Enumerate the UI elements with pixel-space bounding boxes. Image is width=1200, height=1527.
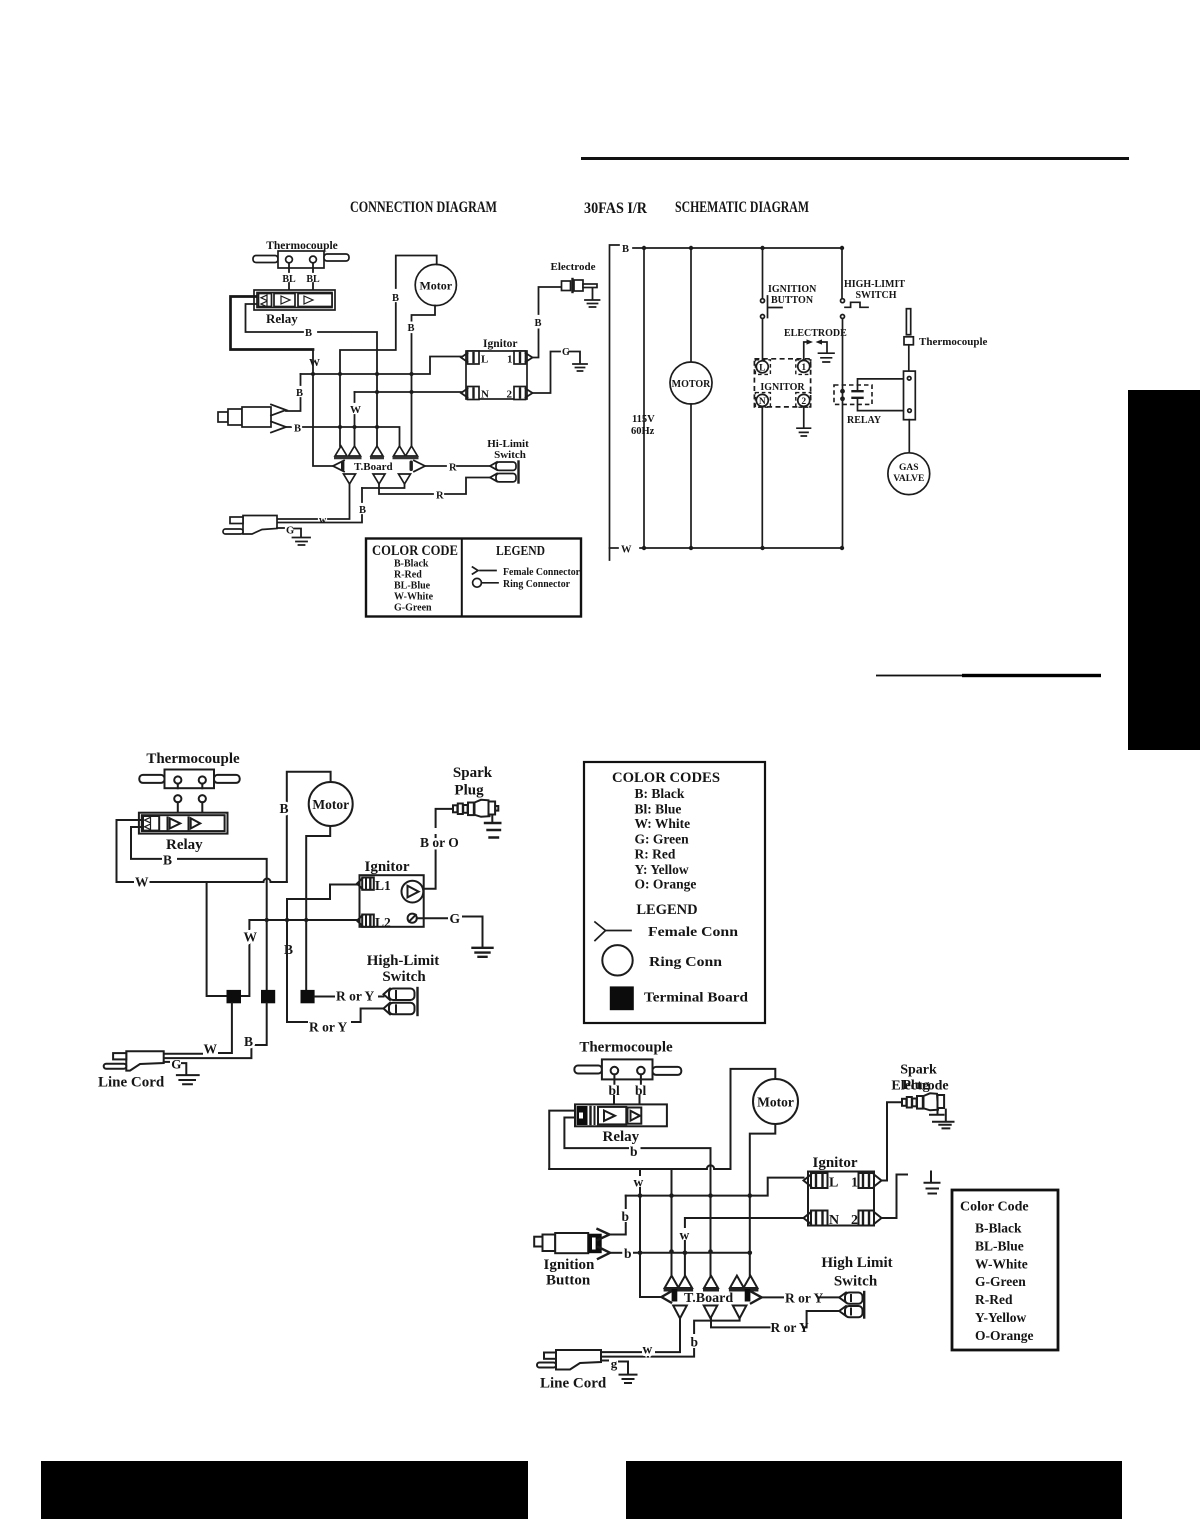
wire TC1 to relay (BL pair) — [289, 263, 313, 301]
wire left arrow to w drop — [640, 1196, 662, 1297]
thermocouple TC2 body — [165, 770, 215, 789]
motor rail lower — [690, 404, 692, 548]
svg-text:R or Y: R or Y — [336, 989, 374, 1004]
svg-text:G-Green: G-Green — [394, 603, 432, 614]
ignitor terminal L — [468, 351, 480, 364]
wire B or O continue — [436, 809, 453, 827]
svg-text:R: R — [449, 463, 457, 474]
svg-text:BUTTON: BUTTON — [771, 295, 814, 306]
svg-text:G: G — [171, 1057, 181, 1072]
thermocouple TC1 right rod — [324, 254, 349, 261]
hi-limit connector upper (C) — [384, 989, 391, 1001]
wire square1 down to line cord w — [219, 1003, 232, 1053]
wire R or Y continue — [818, 1296, 839, 1298]
rail 1 (line) — [643, 248, 645, 548]
svg-text:Female Conn: Female Conn — [648, 924, 739, 939]
svg-text:2: 2 — [851, 1213, 858, 1228]
svg-text:Switch: Switch — [494, 449, 526, 461]
hi-limit bar (C) — [416, 988, 418, 1015]
wire square3 to R or Y upper — [315, 996, 334, 998]
T.Board TB1 top connectors (5 triangles) — [335, 446, 418, 456]
wire spark gap to plug — [423, 835, 435, 889]
wire W rail down — [313, 350, 333, 467]
wire G to ground — [569, 352, 580, 364]
svg-text:Spark: Spark — [453, 765, 493, 781]
wire right arrow to R or Y — [762, 1296, 783, 1298]
electrode E1 connector — [562, 281, 571, 291]
wire relay lower-left to B node — [246, 304, 304, 332]
ground symbol (line cord) — [293, 538, 311, 546]
svg-text:O: Orange: O: Orange — [635, 877, 697, 892]
svg-text:Thermocouple: Thermocouple — [919, 336, 988, 348]
svg-text:GAS: GAS — [899, 463, 919, 473]
svg-text:SWITCH: SWITCH — [855, 290, 896, 301]
line cord plug P1 — [243, 516, 277, 535]
wire w horizontal to motor column — [549, 1168, 730, 1170]
wire w drop continue — [639, 1188, 641, 1196]
ignitor terminal 1 — [514, 351, 526, 364]
bus node row2 to ignitor N — [355, 391, 462, 393]
svg-text:BL: BL — [282, 274, 296, 285]
svg-text:B-Black: B-Black — [394, 559, 429, 570]
wire w to plug — [328, 484, 350, 519]
svg-text:Ring Connector: Ring Connector — [503, 579, 570, 590]
svg-text:Female Connector: Female Connector — [503, 567, 580, 578]
svg-text:b: b — [622, 1209, 630, 1224]
thermocouple body rect — [904, 371, 916, 420]
wire B down to line cord — [361, 488, 363, 502]
legend female connector symbol — [473, 567, 497, 574]
ignitor pin 1 — [798, 360, 810, 372]
bus row3 wire — [303, 427, 400, 446]
spark electrode body — [902, 1093, 944, 1110]
svg-text:W: W — [309, 357, 320, 369]
svg-text:Ignition: Ignition — [544, 1257, 596, 1273]
wire R or Y upper continue — [379, 996, 384, 998]
svg-text:B: B — [284, 942, 293, 957]
wire to T.Board pin1 — [339, 375, 341, 446]
svg-text:Terminal Board: Terminal Board — [644, 990, 749, 1005]
svg-text:R or Y: R or Y — [309, 1020, 347, 1035]
ignitor U3 box — [808, 1172, 874, 1226]
wires bl to relay — [614, 1096, 640, 1114]
motor M3 feed from w line — [731, 1069, 776, 1169]
ignition button lower prong — [598, 1247, 610, 1259]
thermocouple TC2 right rod — [214, 775, 240, 783]
wires rings to relay — [178, 802, 203, 821]
wire R to hi-limit upper — [425, 465, 446, 467]
hi-limit connector lower (D) — [839, 1306, 846, 1316]
svg-text:w: w — [634, 1175, 644, 1190]
high-limit switch bump symbol — [845, 302, 868, 307]
ignitor U1 box — [466, 351, 527, 399]
relay K3 bars — [589, 1107, 591, 1124]
bottom bus W — [640, 547, 842, 549]
wire motor top B — [396, 256, 437, 289]
svg-text:COLOR CODES: COLOR CODES — [612, 770, 720, 786]
wire motor bottom to square 3 — [306, 826, 330, 990]
ignitor terminal N — [468, 387, 480, 400]
relay K2 contact compartment — [143, 816, 159, 831]
ground symbol (spark plug) — [491, 816, 493, 823]
wire thermocouple to gas valve — [908, 420, 910, 453]
svg-text:B or O: B or O — [420, 835, 459, 850]
svg-text:W-White: W-White — [394, 592, 434, 603]
ignitor U2 box — [360, 875, 424, 927]
ignition button rail — [762, 248, 764, 298]
wire bus w left down to button — [625, 1196, 627, 1208]
svg-text:L: L — [759, 364, 765, 374]
label W bottom rail — [610, 547, 619, 549]
ground symbol (electrode schematic) — [819, 353, 835, 362]
ground symbol (ignitor2 D) — [930, 1172, 932, 1183]
divider — [461, 539, 463, 617]
wire w to plug — [164, 1053, 202, 1055]
svg-text:L2: L2 — [375, 915, 391, 930]
top horizontal rule — [581, 157, 1129, 160]
relay (schematic) dashed box — [834, 385, 872, 404]
svg-text:g: g — [611, 1356, 618, 1371]
svg-text:BL-Blue: BL-Blue — [975, 1238, 1024, 1253]
spark gap circle — [402, 881, 424, 903]
terminal board square 2 — [261, 990, 275, 1003]
wire ignitor 1 to spark gap — [804, 342, 807, 360]
wire G to ground — [463, 917, 483, 948]
ground symbol (line cord C) — [177, 1075, 199, 1084]
source bracket — [610, 245, 620, 560]
ignitor terminal sub-boxes — [755, 360, 810, 407]
svg-text:30FAS I/R: 30FAS I/R — [584, 200, 648, 217]
svg-text:Line Cord: Line Cord — [98, 1075, 165, 1091]
svg-text:L: L — [481, 354, 488, 366]
wire W2 continue — [354, 415, 356, 446]
svg-text:Motor: Motor — [419, 279, 452, 293]
svg-text:B-Black: B-Black — [975, 1221, 1022, 1236]
wire R upper continue — [457, 465, 490, 467]
svg-text:L1: L1 — [375, 878, 391, 893]
wire ignitor2 to G ground — [533, 352, 561, 394]
wire button to ignitor L — [762, 319, 764, 362]
wire R or Y lower (D) — [803, 1311, 839, 1327]
svg-text:BL-Blue: BL-Blue — [394, 581, 431, 592]
ground symbol (ignitor G) — [573, 364, 587, 371]
wire relay upper-left to W rail (thick) — [231, 297, 314, 350]
high-limit rail — [841, 248, 843, 298]
ignitor U (schematic) dashed box — [754, 359, 810, 407]
svg-text:MOTOR: MOTOR — [672, 379, 711, 390]
top bus B — [633, 247, 842, 249]
wire R or Y lower continue — [711, 1318, 770, 1327]
legend female conn symbol — [595, 922, 631, 941]
svg-text:High Limit: High Limit — [821, 1255, 892, 1271]
wire W2 down to T.Board pin2 — [354, 392, 356, 402]
wire motor bottom B continue to T.Board pin5 — [411, 334, 413, 446]
gas valve GV — [888, 453, 930, 495]
svg-text:w: w — [643, 1342, 653, 1357]
svg-text:COLOR CODE: COLOR CODE — [372, 543, 458, 559]
svg-text:Ring Conn: Ring Conn — [649, 954, 723, 969]
wire w to plug 2 — [277, 518, 317, 520]
wire b continue to T.Board — [642, 1148, 711, 1276]
ignitor terminal 1 (D) — [859, 1173, 875, 1188]
wire w to plug — [601, 1351, 641, 1353]
T.Board left pin arrow — [333, 461, 344, 472]
motor M1 — [415, 264, 456, 305]
svg-text:HIGH-LIMIT: HIGH-LIMIT — [844, 279, 905, 290]
svg-text:Thermocouple: Thermocouple — [146, 751, 240, 767]
wire electrode vertical — [539, 287, 562, 314]
color code box (D) — [952, 1190, 1058, 1350]
wire W branch down to terminal square 1 — [207, 882, 227, 996]
ground symbol small (spark) — [930, 1109, 944, 1115]
svg-text:Button: Button — [546, 1273, 591, 1289]
color codes box — [584, 762, 765, 1023]
ignitor terminal N (D) — [811, 1211, 828, 1226]
ground symbol (electrode) — [585, 288, 600, 307]
wire B continue to square 2 — [178, 859, 267, 990]
svg-text:115V: 115V — [632, 414, 655, 425]
svg-text:W: W — [244, 930, 258, 945]
svg-text:b: b — [630, 1144, 638, 1159]
svg-text:G-Green: G-Green — [975, 1274, 1026, 1289]
svg-text:B: B — [294, 424, 301, 435]
ignition button J1 upper prong (female) — [271, 405, 286, 416]
wire w to line cord — [656, 1318, 680, 1352]
svg-text:LEGEND: LEGEND — [496, 543, 545, 558]
svg-text:T.Board: T.Board — [354, 461, 393, 473]
hi-limit connector upper — [490, 462, 497, 470]
svg-text:Relay: Relay — [266, 311, 298, 326]
wire N bus — [685, 1218, 804, 1227]
svg-text:N: N — [759, 397, 766, 407]
relay K3 coil boxes — [598, 1107, 626, 1125]
T.Board TB1 bottom connectors (3 triangles) — [344, 474, 411, 484]
wire square2 down to line cord b — [164, 1003, 267, 1058]
svg-text:60Hz: 60Hz — [631, 426, 655, 437]
hi-limit bar (D) — [863, 1292, 865, 1318]
wire R or Y lower continue — [352, 1009, 384, 1023]
motor rail upper — [690, 248, 692, 362]
wire ignitor L1 feed — [287, 885, 358, 1023]
svg-text:R-Red: R-Red — [394, 570, 422, 581]
spark plug SP body — [453, 800, 498, 817]
wire R to hi-limit lower — [379, 488, 433, 494]
svg-text:G: G — [562, 347, 570, 358]
wire bottom tri link — [694, 1318, 740, 1333]
wires TC3 to bl labels — [614, 1074, 641, 1083]
T.Board TB3 top connectors — [665, 1276, 758, 1288]
svg-text:B: B — [244, 1034, 253, 1049]
relay K3 outer case (heavy) — [575, 1104, 667, 1126]
svg-text:Spark: Spark — [900, 1063, 937, 1078]
svg-text:Relay: Relay — [166, 837, 203, 853]
relay K1 contact compartment — [259, 294, 272, 307]
wire to button prong — [286, 398, 301, 411]
svg-text:Switch: Switch — [382, 969, 426, 985]
wire ignitor L2 bus — [241, 920, 358, 996]
high-limit switch contacts — [841, 299, 845, 303]
motor M3 — [753, 1079, 798, 1124]
wire to spark electrode — [887, 1101, 902, 1104]
svg-text:T.Board: T.Board — [684, 1291, 733, 1306]
wire g from plug — [601, 1360, 608, 1362]
svg-text:Ignitor: Ignitor — [365, 859, 410, 875]
svg-text:2: 2 — [801, 397, 806, 407]
right sidebar black block — [1128, 390, 1200, 750]
wire ignitor N to bottom bus — [761, 407, 763, 549]
thermocouple TC2 rings — [174, 776, 181, 783]
svg-text:R: Red: R: Red — [635, 847, 676, 862]
svg-text:R or Y: R or Y — [771, 1320, 809, 1335]
wire relay bottom-left (b out) — [564, 1118, 628, 1149]
svg-text:bl: bl — [635, 1083, 647, 1098]
wire b to line cord — [601, 1349, 694, 1357]
svg-text:Bl: Blue: Bl: Blue — [635, 802, 682, 817]
ring terminal circle (G) — [408, 914, 417, 923]
thermocouple TC2 left rod — [139, 775, 164, 783]
svg-text:CONNECTION DIAGRAM: CONNECTION DIAGRAM — [350, 199, 497, 216]
svg-text:L: L — [829, 1176, 838, 1191]
svg-text:Relay: Relay — [603, 1129, 640, 1145]
ignitor terminal L (D) — [811, 1173, 828, 1188]
svg-text:O-Orange: O-Orange — [975, 1328, 1034, 1343]
svg-text:G: G — [450, 911, 461, 926]
ignitor terminal 2 — [514, 387, 526, 400]
thermocouple hex — [904, 337, 913, 345]
T.Board right pin + arrow — [745, 1289, 751, 1302]
thermocouple TC1 left rod — [253, 256, 278, 263]
wire bottom triangles link — [362, 484, 405, 488]
T.Board left arrow + pin — [662, 1292, 672, 1303]
T.Board right pin arrow — [410, 461, 413, 472]
svg-text:B: B — [296, 388, 303, 399]
terminal board square 3 — [301, 990, 315, 1003]
motor M (schematic) — [670, 362, 712, 404]
ignition button J1 lower prong (female) — [271, 422, 286, 433]
wire w drop at 640 — [639, 1169, 641, 1175]
svg-text:N: N — [829, 1213, 839, 1228]
wire probe to body — [908, 345, 910, 371]
ignitor terminal 2 (D) — [859, 1211, 875, 1226]
line cord plug P2 — [126, 1051, 163, 1070]
wire G to ground — [182, 1063, 186, 1074]
bus w row — [626, 1178, 804, 1196]
svg-text:1: 1 — [801, 363, 806, 373]
color code / legend box — [366, 539, 581, 617]
wire direct drop to T.Board at 671.5 — [671, 1169, 673, 1276]
ignitor pin 2 — [798, 394, 810, 406]
svg-text:W-White: W-White — [975, 1256, 1028, 1271]
partial rule right (thin part) — [876, 675, 964, 677]
svg-text:N: N — [481, 389, 489, 401]
thermocouple TC1 terminal rings — [286, 256, 293, 263]
thermocouple TC3 right rod — [653, 1067, 682, 1075]
svg-text:1: 1 — [507, 354, 513, 366]
svg-text:ELECTRODE: ELECTRODE — [784, 328, 847, 339]
svg-text:B: B — [622, 244, 629, 255]
wire motor bottom B — [412, 306, 436, 322]
svg-text:Y-Yellow: Y-Yellow — [975, 1310, 1027, 1325]
T.Board TB3 base bars — [664, 1288, 759, 1291]
wire g to ground — [619, 1362, 628, 1375]
svg-text:Color Code: Color Code — [960, 1200, 1029, 1215]
svg-text:Ignitor: Ignitor — [483, 338, 518, 350]
b bus continue — [634, 1252, 750, 1254]
relay coil plates — [853, 391, 863, 398]
legend ring connector symbol — [473, 578, 482, 587]
ground symbol (spark electrode) — [945, 1110, 947, 1121]
svg-text:Plug: Plug — [902, 1078, 929, 1093]
wire relay B out — [131, 827, 161, 859]
wire motor top B continue — [340, 303, 396, 373]
motor M2 — [309, 782, 353, 826]
wire G from plug — [164, 1061, 169, 1063]
wire high-limit down through relay — [842, 319, 844, 549]
svg-text:BL: BL — [306, 274, 320, 285]
ignitor pin L — [756, 361, 768, 373]
wire button lower prong b bus — [610, 1252, 622, 1254]
wire G to ground — [294, 529, 301, 538]
wire G from plug — [277, 527, 284, 529]
svg-text:IGNITOR: IGNITOR — [760, 382, 805, 393]
svg-text:IGNITION: IGNITION — [768, 284, 817, 295]
svg-text:W: W — [350, 404, 361, 416]
svg-text:W: W — [621, 545, 632, 556]
bottom black bar left — [41, 1461, 528, 1519]
svg-text:Ignitor: Ignitor — [813, 1155, 858, 1171]
svg-text:B: B — [280, 801, 289, 816]
hi-limit connector lower (C) — [384, 1003, 391, 1015]
wire ignitor1 up to electrode — [882, 1103, 888, 1180]
svg-text:Motor: Motor — [312, 797, 349, 812]
wire bus1 left to ignition button upper prong — [300, 374, 302, 385]
wire motor bottom to T.Board — [750, 1124, 776, 1276]
ignitor terminal L1 — [362, 878, 374, 890]
thermocouple TC3 body — [602, 1059, 653, 1079]
relay K1 coil boxes — [274, 294, 295, 307]
legend ring conn symbol — [602, 945, 632, 975]
bus row3 from button lower prong — [286, 426, 291, 428]
ignition button J1 body — [218, 412, 228, 422]
wire ignitor 2 to ground — [803, 407, 805, 428]
svg-text:VALVE: VALVE — [893, 474, 924, 484]
ignition button upper prong — [598, 1229, 610, 1240]
legend terminal board square — [610, 986, 634, 1010]
wire G from ignitor — [417, 917, 447, 919]
ignitor terminal L2 — [362, 915, 374, 927]
ground symbol (ignitor 2) — [797, 428, 811, 436]
bottom black bar right — [626, 1461, 1122, 1519]
wire B from relay to ignitor column — [318, 332, 377, 446]
relay K2 outer case — [139, 813, 228, 834]
svg-text:Electrode: Electrode — [550, 261, 595, 273]
hi-limit bar — [517, 462, 519, 483]
hi-limit connector lower — [490, 474, 497, 482]
wire N bus drop — [684, 1241, 686, 1276]
wires TC2 stubs — [178, 784, 203, 789]
bus node row1 — [301, 357, 462, 375]
wire motor top from W line — [287, 772, 331, 882]
T.Board TB1 base bars — [334, 456, 419, 459]
thermocouple TC3 rings — [611, 1067, 619, 1075]
svg-text:Thermocouple: Thermocouple — [579, 1040, 673, 1056]
svg-text:B: Black: B: Black — [635, 786, 685, 801]
svg-text:b: b — [691, 1335, 699, 1350]
svg-text:B: B — [305, 328, 312, 339]
wire relay to thermocouple upper — [858, 379, 904, 391]
ignition button J2 body — [534, 1237, 542, 1247]
svg-text:Y: Yellow: Y: Yellow — [635, 862, 689, 877]
